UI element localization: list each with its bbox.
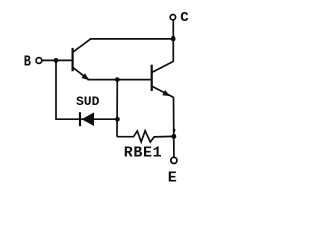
terminal B circle: [36, 58, 42, 64]
transistor Q1 emitter arrow: [81, 73, 89, 80]
transistor Q2 emitter diagonal: [152, 86, 173, 97]
transistor Q1 base bar: [71, 48, 73, 71]
node RBE1 junction: [171, 134, 176, 139]
svg-text:SUD: SUD: [76, 94, 100, 109]
wire B to Q1 base: [42, 59, 72, 61]
terminal E circle: [171, 157, 177, 163]
resistor RBE1 zigzag: [117, 131, 174, 142]
transistor Q1 emitter diagonal: [73, 68, 89, 80]
wire top collector bus: [90, 38, 174, 40]
wire E rail: [173, 97, 175, 157]
diode SUD cathode bar: [79, 112, 81, 126]
diode SUD triangle: [82, 112, 94, 126]
node base junction: [54, 58, 59, 63]
svg-text:C: C: [180, 10, 189, 26]
svg-text:RBE1: RBE1: [124, 144, 163, 161]
wire left rail down to diode row: [56, 60, 117, 119]
wire C rail: [172, 20, 174, 62]
label B: [24, 54, 31, 71]
transistor Q2 collector diagonal: [152, 61, 173, 72]
transistor Q2 emitter arrow: [162, 90, 170, 96]
node diode-right junction: [115, 117, 120, 122]
node Q2-base junction: [115, 77, 120, 82]
wire mid rail: [116, 80, 118, 137]
svg-text:B: B: [24, 54, 31, 71]
node RBE1 junction upper blob: [173, 128, 176, 131]
node C junction: [171, 36, 176, 42]
wire Q1 emitter to Q2 base: [88, 79, 151, 81]
transistor Q1 collector diagonal: [73, 39, 91, 52]
transistor Q2 base bar: [151, 65, 153, 91]
terminal C circle: [170, 15, 175, 20]
svg-text:E: E: [168, 169, 177, 186]
